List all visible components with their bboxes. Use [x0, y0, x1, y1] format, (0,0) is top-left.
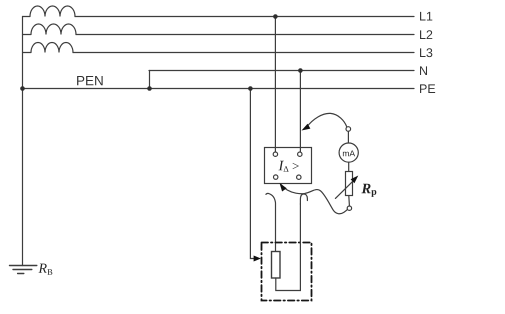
node junction L1 drop [273, 14, 278, 19]
node RCD terminal bottom-left [274, 175, 278, 179]
label N [420, 66, 427, 75]
wire PE drop [250, 89, 255, 259]
resistor R load in enclosure [272, 252, 281, 279]
wire flexible hook right [300, 194, 307, 204]
node probe terminal bottom [347, 206, 351, 210]
node junction PEN-star [20, 86, 25, 91]
wire probe to meter [347, 131, 349, 143]
resistor RP (adjustable) [346, 172, 353, 196]
label RB [38, 264, 52, 275]
transformer winding T1 (L1 phase coil) [23, 6, 76, 16]
arrowhead on N-drop wire [302, 124, 311, 131]
wire PEN / PE line [23, 88, 415, 90]
node RCD terminal top-left [273, 152, 277, 156]
wire flexible hook left [266, 193, 276, 252]
wire L3 line [73, 52, 414, 54]
node junction N drop [298, 68, 303, 73]
node RCD terminal top-right [298, 152, 302, 156]
label PE [420, 84, 435, 93]
label L2 [420, 30, 432, 39]
meter M1 mA [339, 143, 358, 162]
wire load bottom loop [276, 204, 301, 291]
label mA [343, 150, 355, 156]
wire meter to Rp [348, 162, 350, 172]
arrowhead at RCD bottom-left terminal [280, 183, 287, 192]
wire L1 line [75, 16, 414, 18]
wire test lead top curve to mA [306, 113, 346, 127]
wire N drop to RCD [299, 71, 301, 153]
wire L1 drop to RCD [274, 17, 276, 153]
label L3 [420, 48, 432, 57]
transformer winding T3 (L3 phase coil) [23, 43, 74, 53]
ground (earth electrode) [10, 266, 37, 274]
wire N branch from PEN [149, 71, 151, 89]
wire test lead bottom S-curve [281, 185, 347, 214]
arrowhead PE to enclosure [254, 256, 261, 262]
wire N line [149, 70, 414, 72]
node junction PE drop [248, 86, 253, 91]
transformer winding T2 (L2 phase coil) [23, 24, 77, 34]
label Rp [361, 184, 376, 197]
label I-delta [278, 161, 298, 172]
label L1 [420, 12, 432, 21]
label PEN [77, 76, 103, 85]
arrowhead on Rp diagonal [351, 176, 359, 184]
load enclosure (dash-dot box) [262, 243, 312, 301]
node junction N branch [147, 86, 152, 91]
wire Rp to bottom probe [348, 196, 351, 206]
wire Rp arrow diagonal [335, 179, 355, 199]
op-amp U1 RCD box IΔ> [265, 148, 312, 184]
wire L2 line [76, 34, 414, 36]
wire star point to ground (left vertical) [22, 17, 24, 266]
node probe terminal top [346, 127, 351, 132]
node RCD terminal bottom-right [297, 175, 301, 179]
